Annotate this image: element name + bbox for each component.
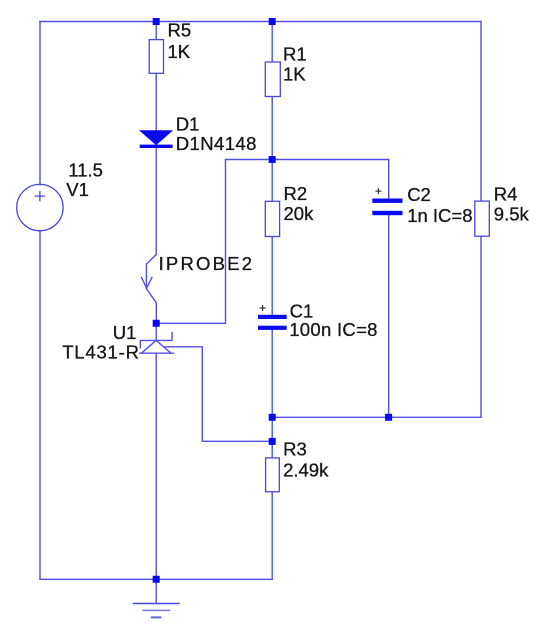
svg-text:R5: R5 [168, 19, 192, 40]
svg-text:D1N4148: D1N4148 [176, 133, 257, 154]
svg-text:C2: C2 [407, 184, 431, 205]
svg-text:R2: R2 [284, 183, 308, 204]
svg-text:11.5: 11.5 [68, 160, 103, 181]
svg-text:D1: D1 [176, 113, 200, 134]
svg-text:1K: 1K [283, 63, 306, 84]
svg-text:9.5k: 9.5k [494, 204, 530, 225]
svg-text:R3: R3 [283, 439, 307, 460]
svg-text:2.49k: 2.49k [283, 460, 329, 481]
svg-text:U1: U1 [113, 322, 137, 343]
svg-text:20k: 20k [284, 203, 315, 224]
svg-text:100n IC=8: 100n IC=8 [289, 319, 378, 340]
svg-text:TL431-R: TL431-R [62, 342, 140, 363]
svg-text:R4: R4 [494, 184, 518, 205]
svg-text:IPROBE2: IPROBE2 [159, 253, 255, 274]
svg-text:1n IC=8: 1n IC=8 [407, 205, 472, 226]
svg-text:R1: R1 [283, 43, 307, 64]
svg-text:V1: V1 [66, 179, 89, 200]
svg-text:1K: 1K [168, 41, 191, 62]
